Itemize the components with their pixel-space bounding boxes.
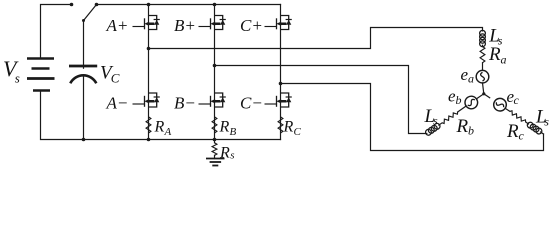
svg-text:R: R (219, 118, 230, 135)
svg-text:R: R (219, 144, 230, 161)
svg-text:C−: C− (240, 93, 263, 112)
svg-text:s: s (15, 71, 20, 86)
svg-text:c: c (519, 129, 525, 143)
svg-text:a: a (468, 72, 474, 86)
svg-text:A−: A− (106, 93, 129, 112)
svg-text:B−: B− (174, 93, 196, 112)
svg-text:R: R (154, 118, 165, 135)
svg-text:B: B (230, 126, 237, 138)
svg-text:R: R (488, 44, 501, 65)
svg-text:R: R (506, 121, 519, 142)
svg-text:a: a (501, 53, 507, 67)
svg-text:A+: A+ (106, 16, 129, 35)
svg-text:s: s (544, 115, 549, 129)
svg-text:B+: B+ (174, 16, 196, 35)
svg-text:b: b (456, 93, 462, 107)
svg-text:A: A (164, 126, 172, 138)
svg-text:c: c (514, 93, 520, 107)
svg-text:R: R (283, 118, 294, 135)
svg-text:s: s (433, 114, 438, 128)
svg-text:C+: C+ (240, 16, 263, 35)
svg-text:C: C (294, 126, 302, 138)
svg-text:b: b (468, 124, 474, 138)
svg-text:s: s (230, 150, 234, 162)
svg-text:C: C (111, 71, 120, 86)
svg-text:R: R (456, 116, 469, 137)
